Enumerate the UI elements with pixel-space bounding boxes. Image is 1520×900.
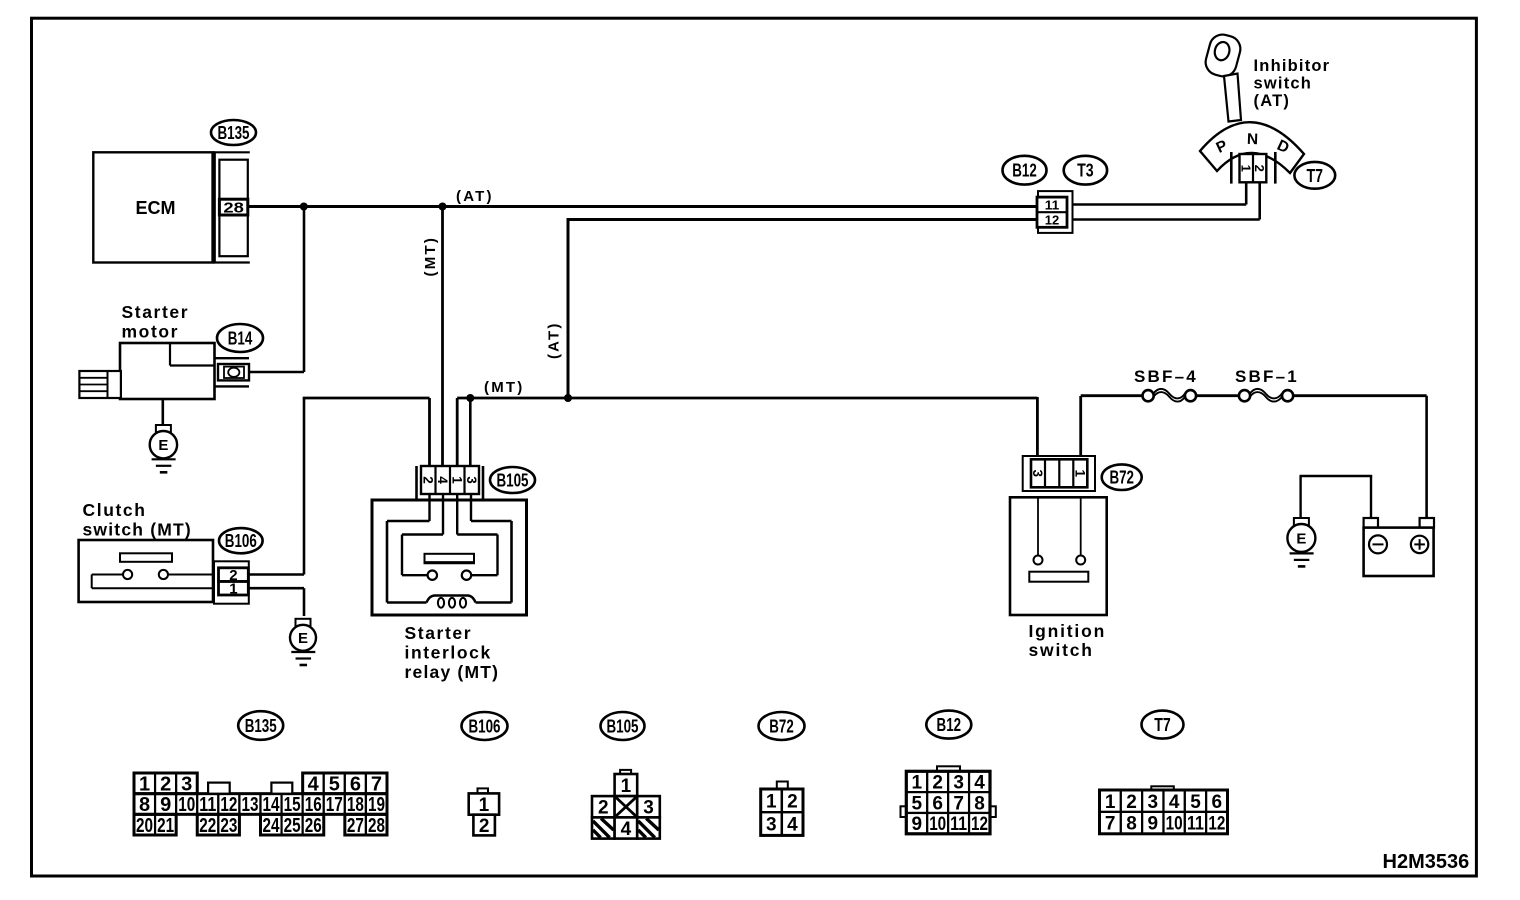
svg-text:E: E: [298, 630, 308, 647]
svg-text:B72: B72: [769, 716, 794, 736]
svg-text:8: 8: [974, 793, 985, 814]
ground E clutch: [296, 619, 311, 627]
connector oval B72: [1102, 464, 1142, 490]
pin 2 cell: [219, 568, 249, 582]
pin 1 cell: [219, 582, 249, 596]
svg-text:6: 6: [932, 793, 943, 814]
bottom pinout B72: [777, 782, 788, 790]
junction node: AT drop on MT wire: [564, 394, 572, 402]
ground E starter motor: [156, 425, 171, 433]
svg-text:9: 9: [911, 814, 922, 835]
starter motor ground wire: [162, 399, 165, 426]
wire: clutch pin1 to ground: [248, 587, 304, 590]
svg-text:1: 1: [479, 795, 490, 816]
connector oval B106: [219, 528, 263, 553]
svg-text:SBF–1: SBF–1: [1235, 367, 1299, 386]
wire: vertical from ECM junction down to starter motor connector: [303, 207, 306, 373]
inhibitor connector cells: [1240, 154, 1267, 182]
ignition connector cells: [1031, 459, 1087, 487]
ECM box: [93, 152, 213, 262]
svg-text:SBF–4: SBF–4: [1134, 367, 1198, 386]
connector oval T7: [1294, 162, 1335, 189]
ECM connector column B135: [219, 160, 247, 257]
clutch switch contacts: [92, 574, 123, 576]
svg-text:12: 12: [971, 814, 988, 835]
svg-text:2: 2: [479, 816, 490, 837]
ignition switch bar: [1029, 572, 1088, 582]
svg-text:switch: switch: [1029, 640, 1094, 660]
svg-text:switch: switch: [1254, 75, 1313, 93]
svg-text:(AT): (AT): [546, 321, 563, 359]
wire: MT wire left segment to relay pin 2: [303, 397, 430, 400]
svg-text:2: 2: [787, 791, 798, 812]
svg-text:11: 11: [1045, 197, 1060, 212]
svg-text:7: 7: [953, 793, 964, 814]
ignition switch box: [1010, 497, 1107, 615]
svg-text:1: 1: [449, 476, 464, 484]
svg-text:1: 1: [766, 791, 777, 812]
svg-text:T7: T7: [1154, 715, 1171, 735]
starter motor terminal stubs: [215, 357, 250, 359]
fuse SBF-1: [1239, 390, 1250, 401]
svg-text:B105: B105: [607, 716, 639, 736]
svg-text:Starter: Starter: [405, 623, 473, 643]
pin 28 cell: [219, 199, 247, 215]
relay coil loop frame: [387, 520, 430, 523]
svg-text:12: 12: [1208, 814, 1225, 835]
connector oval B12: [1003, 156, 1047, 185]
inhibitor connector wires: [1245, 182, 1248, 204]
svg-text:1: 1: [621, 776, 632, 797]
svg-text:4: 4: [1169, 792, 1180, 813]
battery box: [1364, 528, 1434, 576]
clutch switch actuator bar: [120, 553, 172, 562]
svg-text:motor: motor: [122, 322, 180, 342]
svg-text:Starter: Starter: [122, 302, 190, 322]
relay contact circles: [428, 571, 437, 580]
connector 11/12 cells: [1037, 197, 1067, 227]
connector oval B135: [211, 120, 256, 145]
bottom oval B106: [462, 712, 508, 740]
svg-text:9: 9: [1148, 814, 1159, 835]
svg-text:2: 2: [1126, 792, 1137, 813]
svg-text:T3: T3: [1077, 161, 1094, 181]
ground E battery: [1294, 518, 1309, 526]
junction node: ECM/starter: [300, 203, 308, 211]
svg-text:4: 4: [974, 773, 985, 794]
connector oval T3: [1064, 156, 1107, 185]
connector oval B14: [217, 324, 263, 352]
svg-text:3: 3: [1030, 470, 1045, 478]
wire: ignition B72 pin1 up to fuse line: [1079, 396, 1082, 459]
shift lever stick: [1224, 74, 1241, 122]
connector B106 bracket: [214, 561, 249, 603]
connector 11/12 bracket: [1038, 191, 1073, 233]
B135 tabs: [208, 783, 230, 794]
wire: clutch switch pin2 up to MT wire: [303, 398, 306, 575]
wire: ECM pin28 to connector B12/T3 pin 11 (AT net): [248, 205, 1037, 208]
starter motor body: [120, 343, 215, 399]
connector oval B105: [490, 467, 535, 493]
bottom oval B135: [238, 711, 283, 740]
fuse SBF-4: [1143, 390, 1154, 401]
bottom pinout B105: [620, 770, 631, 774]
svg-text:(AT): (AT): [456, 188, 494, 205]
svg-text:4: 4: [621, 819, 632, 840]
junction node: relay pin3: [466, 394, 474, 402]
svg-text:5: 5: [1190, 792, 1201, 813]
svg-text:3: 3: [464, 476, 479, 484]
relay contact box: [402, 533, 443, 535]
svg-text:B135: B135: [245, 716, 277, 736]
svg-text:Inhibitor: Inhibitor: [1254, 57, 1331, 75]
svg-text:(MT): (MT): [484, 379, 524, 396]
svg-text:E: E: [158, 437, 168, 454]
svg-text:11: 11: [950, 814, 967, 835]
PND arc: [1200, 122, 1304, 173]
wire: B12/T3 pin 12 horizontal: [567, 218, 1038, 221]
relay outer box: [372, 500, 527, 615]
clutch switch box: [79, 540, 213, 602]
connector B14: [218, 364, 249, 380]
svg-text:ECM: ECM: [136, 198, 176, 218]
svg-text:8: 8: [1126, 814, 1137, 835]
svg-text:3: 3: [766, 815, 777, 836]
wire: ignition B72 pin3 drop: [1036, 397, 1039, 459]
svg-text:3: 3: [643, 798, 654, 819]
svg-text:6: 6: [1212, 792, 1223, 813]
shift lever knob: [1203, 32, 1244, 80]
battery terminals: [1364, 518, 1378, 528]
svg-text:2: 2: [932, 773, 943, 794]
svg-text:(MT): (MT): [422, 236, 439, 276]
svg-text:4: 4: [435, 476, 450, 484]
svg-text:11: 11: [1187, 814, 1204, 835]
svg-text:12: 12: [1045, 212, 1060, 227]
svg-text:B12: B12: [937, 715, 962, 735]
relay armature bar: [425, 554, 475, 563]
wire: relay pin 3 drop from junction: [469, 398, 472, 466]
svg-text:(AT): (AT): [1254, 92, 1291, 110]
battery minus symbol: [1369, 535, 1387, 553]
svg-text:5: 5: [911, 793, 922, 814]
junction node: AT/MT split: [439, 203, 447, 211]
svg-text:Clutch: Clutch: [83, 500, 147, 520]
ignition switch contacts: [1037, 497, 1039, 555]
svg-text:2: 2: [598, 798, 609, 819]
bottom pinout B135: [134, 773, 155, 794]
svg-text:1: 1: [229, 581, 237, 598]
svg-text:B72: B72: [1109, 468, 1134, 488]
svg-text:B105: B105: [497, 470, 529, 490]
svg-text:2: 2: [1252, 165, 1267, 172]
relay pin wires inside: [428, 494, 430, 521]
wire: ECM MT vertical to relay pin 4: [441, 207, 444, 467]
bottom oval B72: [759, 712, 805, 740]
svg-text:Ignition: Ignition: [1029, 621, 1107, 641]
svg-text:interlock: interlock: [405, 643, 492, 663]
svg-text:2: 2: [420, 476, 435, 484]
svg-text:B14: B14: [228, 328, 253, 348]
svg-text:10: 10: [1166, 814, 1183, 835]
svg-text:1: 1: [1073, 470, 1088, 478]
svg-text:3: 3: [1148, 792, 1159, 813]
svg-text:T7: T7: [1307, 166, 1324, 186]
bottom oval B12: [926, 711, 971, 739]
bottom oval T7: [1142, 711, 1184, 739]
battery plus symbol: [1411, 536, 1428, 553]
svg-text:E: E: [1296, 530, 1306, 547]
svg-text:B106: B106: [225, 531, 257, 551]
svg-text:1: 1: [911, 773, 922, 794]
relay connector B105 bracket: [415, 466, 418, 500]
wire: (AT) vertical drop: [567, 218, 570, 398]
wire: battery plus vertical: [1425, 396, 1428, 518]
svg-text:switch (MT): switch (MT): [83, 520, 192, 540]
bottom pinout B12: [937, 766, 960, 771]
svg-text:H2M3536: H2M3536: [1383, 851, 1470, 873]
svg-text:3: 3: [953, 773, 964, 794]
relay connector cells: [421, 466, 479, 494]
bottom pinout B106: [478, 788, 489, 793]
wire: fuse line segments to battery: [1081, 394, 1144, 397]
inhibitor connector bracket: [1230, 152, 1233, 184]
svg-text:B106: B106: [469, 716, 501, 736]
relay coil: [427, 596, 476, 603]
bottom oval B105: [601, 712, 645, 740]
bottom pinout T7: [1151, 786, 1174, 790]
svg-text:B12: B12: [1012, 161, 1037, 181]
svg-text:7: 7: [1105, 814, 1116, 835]
svg-text:1: 1: [1105, 792, 1116, 813]
starter motor pinion (hatched): [79, 371, 121, 398]
svg-text:B135: B135: [218, 123, 250, 143]
wire: battery minus to ground E: [1370, 476, 1372, 518]
svg-text:relay (MT): relay (MT): [405, 662, 500, 682]
wire: MT wire right segment to ignition switch: [457, 397, 1037, 400]
wire: starter motor B14 to vertical: [249, 371, 304, 374]
svg-text:4: 4: [787, 815, 798, 836]
ignition connector B72 bracket: [1023, 456, 1095, 491]
svg-text:N: N: [1247, 131, 1259, 148]
svg-text:1: 1: [1239, 165, 1254, 172]
svg-text:28: 28: [223, 200, 244, 217]
svg-text:10: 10: [929, 814, 946, 835]
